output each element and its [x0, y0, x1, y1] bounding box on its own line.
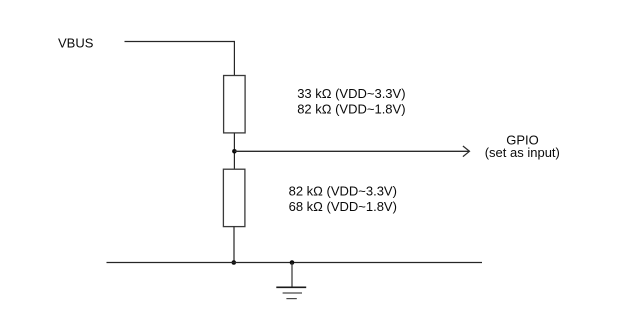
node junction dot on ground rail: [232, 260, 237, 265]
svg-text:68 kΩ (VDD~1.8V): 68 kΩ (VDD~1.8V): [289, 199, 397, 214]
wire ground rail: [107, 262, 483, 264]
ground: [276, 287, 306, 298]
node junction dot at ground stub: [290, 260, 295, 265]
arrowhead to GPIO: [463, 146, 470, 157]
svg-text:(set as input): (set as input): [485, 145, 560, 160]
resistor R1 (upper): [224, 76, 246, 133]
wire vertical into R1: [233, 41, 235, 76]
wire from VBUS to top of divider: [125, 41, 235, 43]
svg-text:33 kΩ (VDD~3.3V): 33 kΩ (VDD~3.3V): [297, 86, 405, 101]
wire R1 to R2 through node: [233, 133, 235, 169]
svg-text:82 kΩ (VDD~1.8V): 82 kΩ (VDD~1.8V): [297, 102, 405, 117]
svg-text:VBUS: VBUS: [58, 36, 94, 51]
wire stub to ground symbol: [291, 263, 293, 288]
svg-text:82 kΩ (VDD~3.3V): 82 kΩ (VDD~3.3V): [289, 184, 397, 199]
resistor R2 (lower): [223, 169, 245, 226]
node junction dot (divider midpoint): [232, 149, 237, 154]
wire node to GPIO: [234, 150, 468, 152]
wire R2 to ground rail: [233, 227, 235, 263]
